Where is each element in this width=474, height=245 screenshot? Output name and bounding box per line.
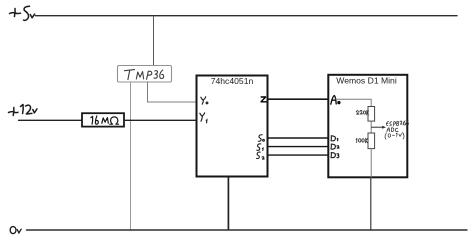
- svg-text:74hc4051n: 74hc4051n: [211, 76, 254, 86]
- wire +12V to R1: [19, 119, 83, 121]
- node divider junction wire: [370, 121, 372, 133]
- resistor R3 100K: [356, 133, 375, 149]
- wire S2 to D3: [268, 154, 329, 156]
- pin label S2: [256, 152, 264, 159]
- wire S1 to D2: [268, 146, 329, 148]
- wire module GND to 0V rail: [370, 177, 372, 230]
- resistor R1 16MΩ: [82, 113, 124, 126]
- resistor R2 220K: [356, 107, 374, 122]
- label ESP8266 ADC (0-1v): [385, 121, 409, 140]
- wire TMP36 Vout to U1 Y0: [148, 82, 197, 102]
- wire divider bottom inside module: [370, 149, 372, 178]
- pin label Y1: [200, 113, 207, 123]
- net 0V rail: [27, 229, 468, 231]
- module U2 Wemos D1 Mini: [328, 75, 407, 178]
- wire S0 to D1: [268, 137, 329, 139]
- wire U1 GND to 0V rail: [227, 177, 229, 231]
- annotation arrow to ESP8266 ADC: [371, 126, 386, 129]
- pin label D3: [331, 153, 339, 158]
- pin label S0: [258, 135, 264, 141]
- wire TMP36 GND to 0V rail: [130, 82, 132, 230]
- wire R1 to U1 Y1: [124, 119, 196, 121]
- pin label Y0: [201, 97, 208, 104]
- pin label S1: [257, 144, 263, 151]
- pin label A0: [331, 96, 340, 105]
- svg-text:Wemos D1 Mini: Wemos D1 Mini: [336, 76, 397, 86]
- label +12v: [9, 105, 37, 116]
- label +5v: [10, 6, 35, 20]
- multiplexer U1 74hc4051n: [197, 76, 268, 177]
- net +5V rail: [36, 15, 458, 17]
- wire A0 to divider top: [336, 99, 371, 106]
- wire Z to A0: [268, 98, 329, 100]
- pin label Z: [261, 97, 266, 102]
- wire +5V to TMP36 Vcc: [153, 16, 155, 66]
- pin label D1: [331, 136, 338, 141]
- label 0v: [10, 227, 21, 234]
- sensor TMP36: [118, 66, 172, 83]
- pin label D2: [331, 144, 339, 149]
